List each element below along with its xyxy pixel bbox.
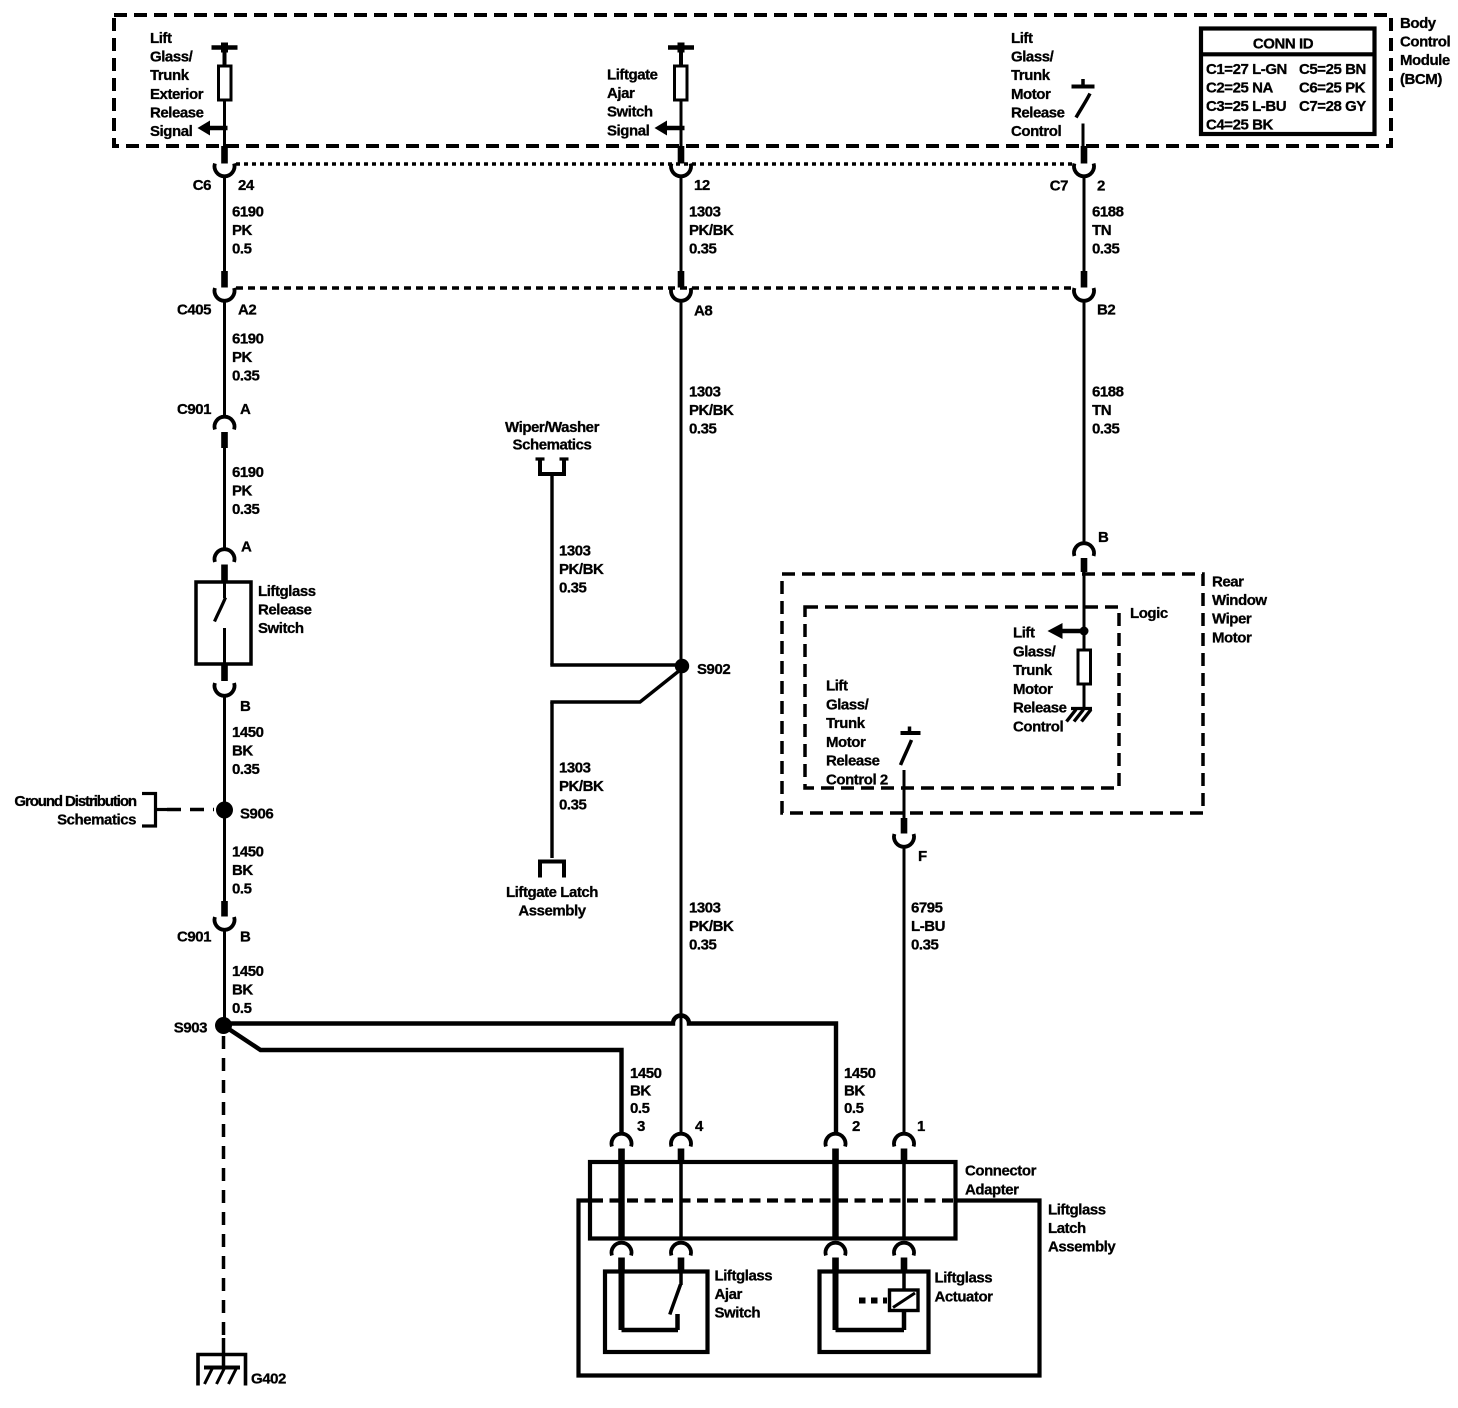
svg-text:PK/BK: PK/BK (689, 918, 734, 935)
svg-text:Trunk: Trunk (1013, 662, 1053, 679)
svg-text:Glass/: Glass/ (826, 696, 870, 713)
svg-text:Assembly: Assembly (1048, 1239, 1116, 1256)
svg-text:C7: C7 (1050, 178, 1068, 195)
svg-text:C405: C405 (177, 302, 211, 319)
svg-text:(BCM): (BCM) (1400, 71, 1442, 88)
wire 6795 L-BU 0.35 (903, 846, 906, 1133)
wire pin2 through adapter (832, 1163, 838, 1238)
svg-text:6190: 6190 (232, 331, 264, 348)
connector terminal B arc rear wiper motor (1074, 543, 1094, 556)
pin stub C7-2 (1081, 146, 1088, 164)
svg-text:BK: BK (232, 862, 253, 879)
svg-text:Glass/: Glass/ (1013, 643, 1057, 660)
svg-text:Liftglass: Liftglass (715, 1268, 773, 1285)
svg-text:Control: Control (1013, 719, 1063, 736)
svg-text:0.5: 0.5 (232, 241, 252, 258)
svg-text:C4=25 BK: C4=25 BK (1206, 117, 1273, 134)
connector terminal B2 arc (1074, 288, 1094, 301)
liftglass latch assembly box (579, 1201, 1040, 1376)
pin stub 3 (618, 1149, 625, 1164)
svg-text:TN: TN (1092, 222, 1111, 239)
svg-text:Control 2: Control 2 (826, 772, 888, 789)
svg-text:A2: A2 (238, 302, 256, 319)
pin stub F (901, 818, 908, 834)
svg-text:0.35: 0.35 (689, 241, 717, 258)
wire pin1 through adapter (902, 1163, 906, 1238)
svg-text:Motor: Motor (1013, 681, 1053, 698)
wire pin3 through adapter (618, 1163, 624, 1238)
svg-text:Release: Release (258, 602, 312, 619)
switch motor release control 2 (908, 727, 912, 734)
svg-text:Latch: Latch (1048, 1220, 1086, 1237)
svg-text:C6=25 PK: C6=25 PK (1299, 80, 1366, 97)
wire S903 to pin 3 (225, 1027, 622, 1134)
svg-text:Switch: Switch (258, 620, 304, 637)
svg-text:Ajar: Ajar (715, 1286, 743, 1303)
node junction release control (1080, 627, 1089, 636)
splice S902 (675, 659, 689, 673)
svg-text:A: A (241, 539, 252, 556)
pin stub 1b (901, 1258, 908, 1272)
pin stub C901-A (221, 432, 228, 448)
chassis ground logic (1071, 707, 1092, 710)
svg-text:1303: 1303 (559, 760, 591, 777)
pin stub 1 (901, 1149, 908, 1164)
svg-text:Glass/: Glass/ (1011, 49, 1055, 66)
svg-text:S902: S902 (697, 661, 730, 678)
connector C901 terminal B arc (215, 917, 235, 930)
svg-text:PK: PK (232, 349, 253, 366)
splice S906 (216, 802, 233, 819)
svg-text:Schematics: Schematics (57, 812, 136, 829)
resistor logic (1083, 631, 1086, 650)
svg-text:Wiper/Washer: Wiper/Washer (505, 419, 600, 436)
connector latch assembly pin 3b arc (612, 1243, 632, 1256)
svg-text:0.35: 0.35 (689, 937, 717, 954)
svg-text:Logic: Logic (1130, 605, 1168, 622)
connector terminal 12 arc (671, 164, 691, 177)
wire 1303 PK/BK 0.35 latch branch (550, 671, 679, 703)
connector row C405 dashed line (236, 286, 1073, 290)
connector adapter pin 2 arc (826, 1134, 846, 1147)
wire 6188 TN 0.35 (1083, 176, 1086, 271)
pin stub B2 (1081, 271, 1088, 288)
svg-text:Release: Release (150, 104, 204, 121)
svg-text:TN: TN (1092, 402, 1111, 419)
arrow lift glass/trunk motor release control (1062, 629, 1084, 634)
arrow exterior release signal (207, 126, 228, 131)
svg-text:Actuator: Actuator (935, 1289, 994, 1306)
svg-text:Switch: Switch (715, 1305, 761, 1322)
wire 1450 BK 0.5 (223, 818, 226, 901)
svg-text:12: 12 (694, 177, 710, 194)
svg-text:C1=27 L-GN: C1=27 L-GN (1206, 61, 1287, 78)
svg-text:0.35: 0.35 (232, 501, 260, 518)
connector C6 terminal 24 arc (215, 164, 235, 177)
svg-text:Lift: Lift (1013, 625, 1035, 642)
switch blade liftglass release switch (223, 582, 226, 598)
svg-text:L-BU: L-BU (911, 918, 945, 935)
svg-text:2: 2 (852, 1118, 860, 1135)
connector C901 terminal A arc (215, 417, 235, 430)
svg-text:Signal: Signal (150, 123, 193, 140)
pin stub A (221, 565, 228, 583)
svg-text:Glass/: Glass/ (150, 49, 194, 66)
svg-text:G402: G402 (251, 1371, 286, 1388)
svg-text:0.35: 0.35 (232, 368, 260, 385)
rear window wiper motor dashed box (782, 574, 1203, 813)
dashed link to S906 (167, 808, 214, 812)
svg-text:Liftglass: Liftglass (1048, 1202, 1106, 1219)
pin stub C405-A2 (221, 271, 228, 288)
svg-text:PK/BK: PK/BK (559, 561, 604, 578)
svg-text:Body: Body (1400, 15, 1437, 32)
svg-text:0.5: 0.5 (232, 881, 252, 898)
connector latch assembly pin 4b arc (671, 1243, 691, 1256)
svg-text:6795: 6795 (911, 900, 943, 917)
svg-text:C901: C901 (177, 401, 211, 418)
svg-text:Control: Control (1011, 123, 1061, 140)
pin stub A8 (678, 271, 685, 288)
svg-text:Trunk: Trunk (826, 715, 866, 732)
connector terminal F arc (894, 834, 914, 847)
connector adapter pin 4 arc (671, 1134, 691, 1147)
svg-text:S906: S906 (240, 806, 273, 823)
liftglass actuator contacts (833, 1271, 839, 1330)
svg-text:PK/BK: PK/BK (559, 778, 604, 795)
wire 1450 BK 0.5 (223, 929, 226, 1020)
pin stub 3b (618, 1258, 625, 1272)
pin stub B (1081, 558, 1088, 572)
svg-text:6190: 6190 (232, 464, 264, 481)
svg-text:Rear: Rear (1212, 574, 1244, 591)
connector terminal B arc (215, 683, 235, 696)
connector latch assembly pin 2b arc (826, 1243, 846, 1256)
liftglass release switch box (196, 582, 251, 664)
svg-text:0.5: 0.5 (844, 1100, 864, 1117)
svg-text:0.35: 0.35 (559, 797, 587, 814)
svg-text:B: B (240, 929, 251, 946)
svg-text:1303: 1303 (689, 384, 721, 401)
svg-text:Release: Release (1011, 104, 1065, 121)
svg-text:Module: Module (1400, 52, 1450, 69)
svg-text:6190: 6190 (232, 204, 264, 221)
svg-text:1450: 1450 (232, 724, 264, 741)
pin stub C6-24 (221, 146, 228, 164)
connector C7 terminal 2 arc (1074, 164, 1094, 177)
svg-text:CONN ID: CONN ID (1253, 36, 1314, 53)
connector latch assembly pin 1b arc (894, 1243, 914, 1256)
resistor element BCM exterior release signal (221, 43, 228, 53)
svg-text:1303: 1303 (689, 900, 721, 917)
connector terminal A arc at release switch (215, 549, 235, 562)
svg-text:Switch: Switch (607, 104, 653, 121)
svg-text:Ground Distribution: Ground Distribution (14, 793, 137, 810)
svg-text:Liftglass: Liftglass (258, 583, 316, 600)
wire (680, 100, 683, 146)
svg-text:F: F (918, 848, 927, 865)
arrow liftgate ajar switch signal (664, 126, 685, 131)
svg-text:BK: BK (844, 1083, 865, 1100)
svg-text:0.35: 0.35 (1092, 421, 1120, 438)
svg-text:Release: Release (1013, 700, 1067, 717)
svg-text:PK/BK: PK/BK (689, 222, 734, 239)
svg-text:1450: 1450 (232, 844, 264, 861)
svg-text:0.5: 0.5 (630, 1100, 650, 1117)
svg-text:Motor: Motor (1011, 86, 1051, 103)
svg-text:C5=25 BN: C5=25 BN (1299, 61, 1366, 78)
svg-text:1303: 1303 (689, 204, 721, 221)
svg-text:C901: C901 (177, 929, 211, 946)
wire 6190 PK 0.35 (223, 448, 226, 548)
bracket wiper/washer schematics (536, 457, 545, 460)
svg-text:Wiper: Wiper (1212, 611, 1252, 628)
svg-text:Assembly: Assembly (518, 903, 586, 920)
svg-text:Lift: Lift (150, 30, 172, 47)
svg-text:B: B (240, 698, 251, 715)
svg-text:3: 3 (637, 1118, 645, 1135)
svg-text:Liftgate Latch: Liftgate Latch (506, 884, 598, 901)
wire 6190 PK 0.5 (223, 176, 226, 271)
svg-text:0.35: 0.35 (689, 421, 717, 438)
svg-text:4: 4 (695, 1118, 704, 1135)
connector C405 terminal A2 arc (215, 288, 235, 301)
wire into rear wiper motor (1083, 572, 1086, 629)
svg-text:B: B (1098, 529, 1109, 546)
svg-text:Connector: Connector (965, 1163, 1037, 1180)
connector adapter pin 1 arc (894, 1134, 914, 1147)
connector adapter pin 3 arc (612, 1134, 632, 1147)
resistor element BCM liftgate ajar switch signal (678, 43, 685, 53)
connector terminal A8 arc (671, 288, 691, 301)
svg-text:Window: Window (1212, 592, 1267, 609)
pin stub 2b (832, 1258, 839, 1272)
connector row C6/12/C7 dotted line (236, 162, 1073, 166)
svg-text:BK: BK (630, 1083, 651, 1100)
wire to S902 (550, 663, 676, 666)
wire 1303 PK/BK 0.35 (680, 300, 683, 1133)
svg-text:1303: 1303 (559, 543, 591, 560)
svg-text:C7=28 GY: C7=28 GY (1299, 98, 1366, 115)
bracket ground distribution schematics (142, 792, 157, 795)
mechanical linkage dots (859, 1298, 887, 1304)
svg-text:Motor: Motor (826, 734, 866, 751)
pin stub 4 (678, 1149, 685, 1164)
svg-text:BK: BK (232, 982, 253, 999)
svg-text:B2: B2 (1097, 302, 1115, 319)
svg-text:Trunk: Trunk (150, 67, 190, 84)
svg-text:PK: PK (232, 222, 253, 239)
svg-text:6188: 6188 (1092, 204, 1124, 221)
wire 6190 PK 0.35 (223, 300, 226, 415)
wire S903 to pin 2 with hop over wire 2 (224, 1016, 837, 1134)
bracket liftgate latch assembly (538, 860, 566, 864)
liftglass ajar switch contacts (619, 1271, 625, 1330)
pin stub C901-B (221, 901, 228, 917)
svg-text:Schematics: Schematics (513, 437, 592, 454)
svg-text:Motor: Motor (1212, 629, 1252, 646)
liftglass ajar switch box (605, 1272, 708, 1353)
wire pin4 through adapter (679, 1163, 683, 1238)
svg-text:Lift: Lift (1011, 30, 1033, 47)
liftglass actuator box (820, 1272, 929, 1353)
svg-text:C6: C6 (193, 177, 211, 194)
svg-text:0.35: 0.35 (559, 580, 587, 597)
dashed wire S903 to G402 (222, 1036, 226, 1338)
svg-text:PK: PK (232, 483, 253, 500)
svg-text:Exterior: Exterior (150, 86, 204, 103)
svg-text:Release: Release (826, 753, 880, 770)
svg-text:C2=25 NA: C2=25 NA (1206, 80, 1273, 97)
svg-text:Liftglass: Liftglass (935, 1270, 993, 1287)
svg-text:Liftgate: Liftgate (607, 67, 658, 84)
svg-text:Lift: Lift (826, 678, 848, 695)
switch BCM motor release control (1081, 79, 1085, 87)
svg-text:Adapter: Adapter (965, 1182, 1019, 1199)
wire 1303 PK/BK 0.35 wiper branch (550, 476, 553, 665)
svg-text:S903: S903 (174, 1020, 207, 1037)
wire to ground (222, 1338, 226, 1367)
svg-text:Trunk: Trunk (1011, 67, 1051, 84)
svg-text:PK/BK: PK/BK (689, 402, 734, 419)
svg-text:A: A (240, 401, 251, 418)
Body Control Module (BCM) dashed box (114, 15, 1391, 146)
svg-text:A8: A8 (694, 303, 712, 320)
svg-text:0.35: 0.35 (232, 761, 260, 778)
svg-text:BK: BK (232, 743, 253, 760)
svg-text:C3=25 L-BU: C3=25 L-BU (1206, 98, 1286, 115)
pin stub 2 (832, 1149, 839, 1164)
pin stub 4b (678, 1258, 685, 1272)
connector adapter box (590, 1162, 956, 1239)
svg-text:2: 2 (1097, 178, 1105, 195)
svg-text:Ajar: Ajar (607, 85, 635, 102)
ground G402 symbol (198, 1355, 246, 1386)
svg-text:1450: 1450 (844, 1065, 876, 1082)
svg-text:1: 1 (917, 1118, 925, 1135)
splice S903 (215, 1017, 232, 1034)
pin stub B (221, 664, 228, 681)
svg-text:1450: 1450 (630, 1065, 662, 1082)
latch assembly boundary dashed through adapter (592, 1198, 953, 1202)
actuator solenoid (890, 1290, 919, 1311)
svg-text:Signal: Signal (607, 122, 650, 139)
logic dashed box (805, 607, 1119, 788)
pin stub 12 (678, 146, 685, 164)
svg-text:6188: 6188 (1092, 384, 1124, 401)
svg-text:24: 24 (238, 177, 255, 194)
CONN ID table (1201, 29, 1375, 135)
wire 6188 TN 0.35 (1083, 300, 1086, 543)
svg-text:0.5: 0.5 (232, 1000, 252, 1017)
wire 1450 BK 0.35 (223, 695, 226, 805)
svg-text:0.35: 0.35 (911, 937, 939, 954)
wire 1303 PK/BK 0.35 (680, 176, 683, 271)
svg-text:Control: Control (1400, 34, 1450, 51)
svg-text:1450: 1450 (232, 963, 264, 980)
svg-text:0.35: 0.35 (1092, 241, 1120, 258)
wire (223, 100, 226, 146)
